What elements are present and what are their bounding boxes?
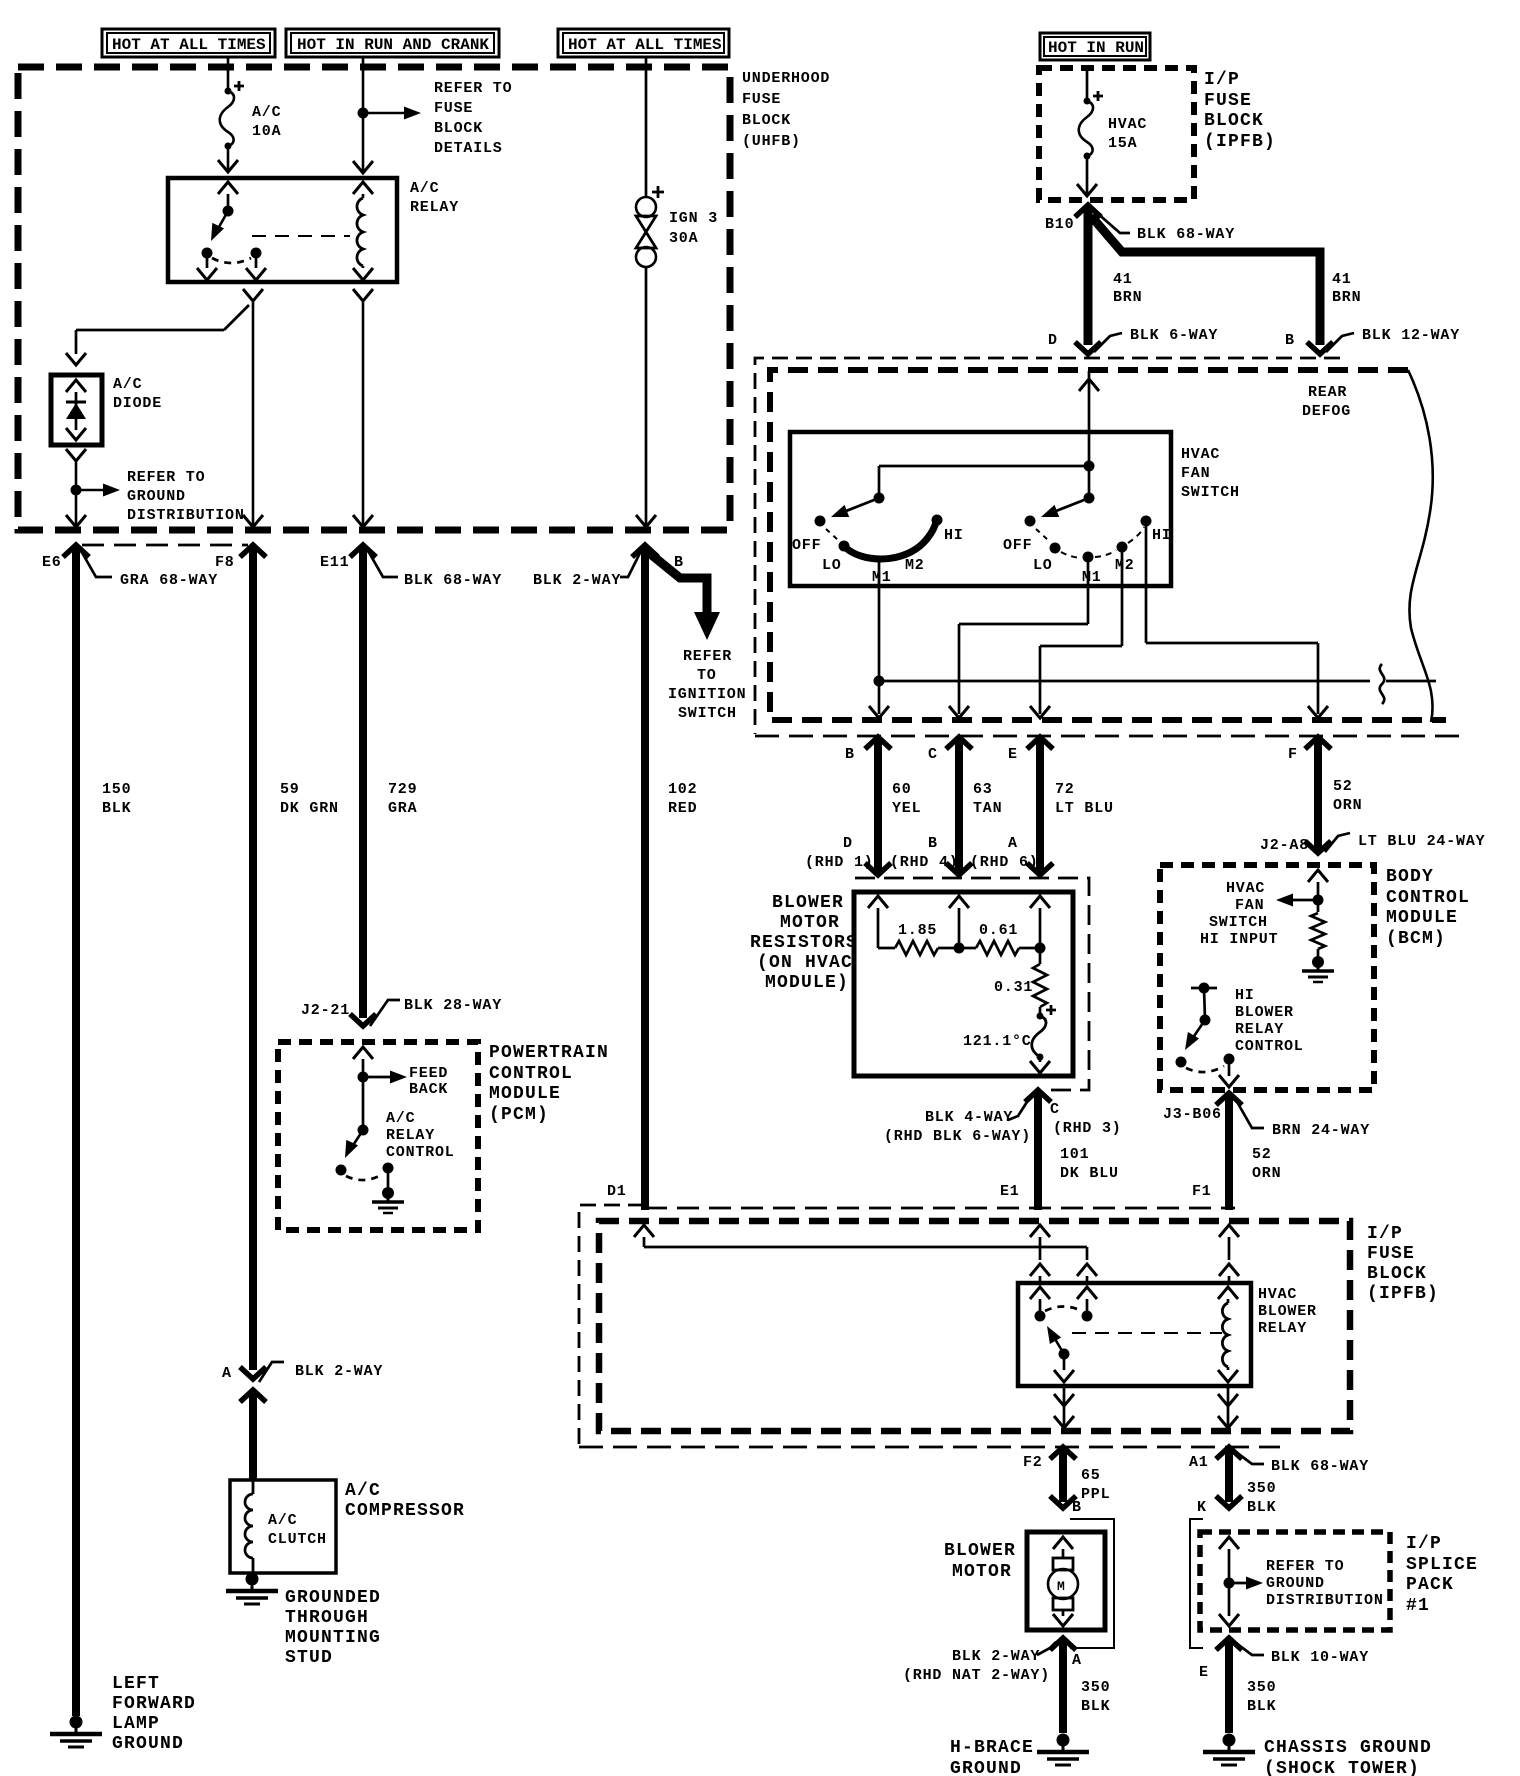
wire: fuse to A/C relay xyxy=(218,146,238,172)
svg-text:FEED: FEED xyxy=(409,1065,448,1082)
svg-text:GROUND: GROUND xyxy=(950,1759,1022,1776)
BCM switch: HI blower relay control xyxy=(1176,983,1240,1088)
module: I/P fuse block (bottom) dashed box xyxy=(599,1221,1350,1431)
svg-text:BODY: BODY xyxy=(1386,867,1434,887)
fan switch feed wiring xyxy=(874,461,1095,504)
wire 101 DK BLU xyxy=(1038,1090,1119,1210)
svg-text:J2-A8: J2-A8 xyxy=(1260,837,1309,854)
I/P fuse block (bottom) title xyxy=(1367,1224,1439,1304)
connector A at compressor xyxy=(222,1362,383,1402)
connector F xyxy=(1288,737,1331,763)
svg-text:F: F xyxy=(1288,746,1298,763)
power feed box: HOT IN RUN AND CRANK xyxy=(286,29,499,57)
connector D xyxy=(1048,327,1218,352)
svg-text:IGN 3: IGN 3 xyxy=(669,210,718,227)
svg-text:RELAY: RELAY xyxy=(386,1127,435,1144)
svg-text:(RHD 3): (RHD 3) xyxy=(1053,1120,1122,1137)
svg-text:(SHOCK TOWER): (SHOCK TOWER) xyxy=(1264,1759,1420,1776)
I/P fuse block outer boundary xyxy=(579,1205,1280,1447)
connector B (blower motor) xyxy=(1070,1499,1114,1648)
BCM title xyxy=(1386,867,1470,949)
node: resistor junction xyxy=(954,943,965,954)
thermal fuse 121.1°C xyxy=(963,1005,1056,1061)
svg-text:M: M xyxy=(1057,1579,1065,1594)
wire 350 BLK (blower motor ground) xyxy=(1063,1638,1110,1733)
svg-text:MODULE: MODULE xyxy=(489,1084,561,1104)
svg-text:CONTROL: CONTROL xyxy=(386,1144,455,1161)
wire 350 BLK (A1 to K) xyxy=(1216,1447,1276,1516)
svg-text:B10: B10 xyxy=(1045,216,1074,233)
resistor 0.31 xyxy=(994,948,1047,1007)
svg-text:HOT AT ALL TIMES: HOT AT ALL TIMES xyxy=(112,36,266,54)
wire: right M1 to output C xyxy=(949,557,1088,718)
svg-text:A/C: A/C xyxy=(345,1481,381,1501)
label: GROUNDED THROUGH MOUNTING STUD xyxy=(285,1588,381,1668)
IPFB entry D1 xyxy=(634,1225,1097,1283)
svg-text:RELAY: RELAY xyxy=(1258,1320,1307,1337)
svg-text:GRA: GRA xyxy=(388,800,417,817)
svg-text:RELAY: RELAY xyxy=(1235,1021,1284,1038)
svg-text:63: 63 xyxy=(973,781,993,798)
wire: HOT AT ALL TIMES to fuse A/C 10A xyxy=(227,57,230,91)
svg-text:MODULE): MODULE) xyxy=(765,973,849,993)
svg-text:A/C: A/C xyxy=(268,1512,297,1529)
connector J2-21 xyxy=(301,997,502,1026)
power feed box: HOT AT ALL TIMES (middle) xyxy=(558,29,729,57)
svg-text:A/C: A/C xyxy=(410,180,439,197)
wire 150 BLK: E6 to left forward lamp ground xyxy=(76,545,131,1716)
connector E6 xyxy=(42,545,89,571)
svg-text:GROUNDED: GROUNDED xyxy=(285,1588,381,1608)
svg-text:HOT IN RUN AND CRANK: HOT IN RUN AND CRANK xyxy=(297,36,489,54)
blower relay internals: switch xyxy=(1030,1287,1222,1382)
node: ground distribution tap xyxy=(71,484,121,497)
svg-text:BLK 28-WAY: BLK 28-WAY xyxy=(404,997,502,1014)
wire: relay output to F8 and diode branch xyxy=(243,289,263,530)
svg-text:101: 101 xyxy=(1060,1146,1089,1163)
connector K (splice pack) xyxy=(1190,1499,1207,1648)
svg-text:BLOWER: BLOWER xyxy=(944,1541,1016,1561)
svg-text:M1: M1 xyxy=(1082,569,1102,586)
wire: right M2 to output E xyxy=(1030,547,1122,718)
svg-text:RELAY: RELAY xyxy=(410,199,459,216)
svg-text:B: B xyxy=(928,835,938,852)
svg-text:E6: E6 xyxy=(42,554,62,571)
svg-text:(RHD 6): (RHD 6) xyxy=(970,854,1039,871)
ground: H-brace ground xyxy=(1037,1734,1089,1766)
svg-text:REFER: REFER xyxy=(683,648,732,665)
svg-text:A1: A1 xyxy=(1189,1454,1209,1471)
svg-text:BLK 4-WAY: BLK 4-WAY xyxy=(925,1109,1013,1126)
connector B xyxy=(632,545,684,571)
wire 729 GRA: E11 to PCM xyxy=(350,545,417,1026)
svg-text:HI: HI xyxy=(944,527,964,544)
svg-text:HI: HI xyxy=(1235,987,1255,1004)
svg-text:PPL: PPL xyxy=(1081,1486,1110,1503)
svg-text:B: B xyxy=(674,554,684,571)
fuse IGN 3 30A xyxy=(636,186,718,267)
wire 52 ORN (BCM to IPFB) xyxy=(1229,1093,1281,1210)
svg-text:0.61: 0.61 xyxy=(979,922,1018,939)
svg-text:HI: HI xyxy=(1152,527,1172,544)
connector J3-B06 xyxy=(1163,1093,1370,1139)
wire 41 BRN: B10 down to D xyxy=(1075,205,1142,354)
UHFB title xyxy=(742,70,830,150)
fan switch left rotary contacts xyxy=(792,515,964,587)
svg-text:I/P: I/P xyxy=(1204,70,1240,90)
svg-text:D: D xyxy=(1048,332,1058,349)
note: REFER TO GROUND DISTRIBUTION xyxy=(127,469,245,524)
svg-text:0.31: 0.31 xyxy=(994,979,1033,996)
svg-text:41: 41 xyxy=(1113,271,1133,288)
wire: E11 relay coil return xyxy=(353,289,373,530)
svg-text:J2-21: J2-21 xyxy=(301,1002,350,1019)
power feed box: HOT AT ALL TIMES (left) xyxy=(102,29,275,57)
svg-text:I/P: I/P xyxy=(1406,1534,1442,1554)
svg-text:HVAC: HVAC xyxy=(1108,116,1147,133)
svg-text:REAR: REAR xyxy=(1308,384,1347,401)
svg-text:DEFOG: DEFOG xyxy=(1302,403,1351,420)
svg-text:BRN: BRN xyxy=(1113,289,1142,306)
wire 65 PPL xyxy=(1050,1447,1110,1508)
wire: A to compressor box xyxy=(249,1390,257,1480)
svg-text:CLUTCH: CLUTCH xyxy=(268,1531,327,1548)
svg-text:(RHD 4): (RHD 4) xyxy=(890,854,959,871)
svg-text:C: C xyxy=(928,746,938,763)
svg-text:HOT IN RUN: HOT IN RUN xyxy=(1048,39,1144,57)
label: H-BRACE GROUND xyxy=(950,1738,1034,1776)
svg-text:BLK 10-WAY: BLK 10-WAY xyxy=(1271,1649,1369,1666)
connector E11 xyxy=(320,545,376,571)
svg-text:(RHD BLK 6-WAY): (RHD BLK 6-WAY) xyxy=(884,1128,1031,1145)
svg-text:C: C xyxy=(1050,1101,1060,1118)
note: REFER TO IGNITION SWITCH xyxy=(668,648,746,722)
svg-text:(IPFB): (IPFB) xyxy=(1367,1284,1439,1304)
svg-text:SWITCH: SWITCH xyxy=(1181,484,1240,501)
svg-text:(ON HVAC: (ON HVAC xyxy=(757,953,853,973)
wire: HOT IN RUN AND CRANK feed xyxy=(353,57,373,173)
wire: IGN3 fuse down to B connector xyxy=(636,267,656,530)
wire 52 ORN (to BCM) xyxy=(1305,737,1362,853)
IPFB entry F1 xyxy=(1219,1225,1239,1283)
svg-text:E11: E11 xyxy=(320,554,349,571)
svg-text:1.85: 1.85 xyxy=(898,922,937,939)
svg-text:BLK: BLK xyxy=(1081,1698,1110,1715)
blower motor symbol xyxy=(1048,1537,1078,1626)
svg-text:121.1°C: 121.1°C xyxy=(963,1033,1032,1050)
connector label BLK 68-WAY (B10) xyxy=(1096,212,1235,243)
svg-text:FUSE: FUSE xyxy=(1204,91,1252,111)
svg-text:OFF: OFF xyxy=(792,537,821,554)
resistor 1.85 xyxy=(878,922,959,955)
svg-text:D: D xyxy=(843,835,853,852)
ground: chassis ground shock tower xyxy=(1203,1734,1255,1766)
PCM label: A/C RELAY CONTROL xyxy=(386,1110,455,1161)
underhood fuse block UHFB dashed box xyxy=(18,67,730,530)
connector F8 xyxy=(215,545,266,571)
wire: relay coil return to A1 xyxy=(1218,1386,1238,1430)
module: A/C compressor box xyxy=(230,1480,465,1573)
svg-text:FORWARD: FORWARD xyxy=(112,1694,196,1714)
svg-text:#1: #1 xyxy=(1406,1596,1430,1616)
wire: diode to ground distribution xyxy=(66,449,86,530)
svg-text:STUD: STUD xyxy=(285,1648,333,1668)
BCM input node xyxy=(1276,870,1328,912)
svg-text:COMPRESSOR: COMPRESSOR xyxy=(345,1501,465,1521)
relay K2: HVAC blower relay box xyxy=(1018,1283,1317,1386)
svg-text:A/C: A/C xyxy=(386,1110,415,1127)
connector B (12-way) xyxy=(1285,327,1460,352)
resistor 0.61 xyxy=(959,922,1040,955)
svg-text:HVAC: HVAC xyxy=(1181,446,1220,463)
svg-text:FUSE: FUSE xyxy=(1367,1244,1415,1264)
svg-text:POWERTRAIN: POWERTRAIN xyxy=(489,1043,609,1063)
svg-text:SWITCH: SWITCH xyxy=(1209,914,1268,931)
svg-text:A: A xyxy=(1072,1652,1082,1669)
splice pack internals xyxy=(1219,1537,1263,1626)
connector B10 xyxy=(1045,205,1101,233)
svg-text:LT BLU: LT BLU xyxy=(1055,800,1114,817)
svg-text:F2: F2 xyxy=(1023,1454,1043,1471)
connector C (RHD 3) xyxy=(884,1090,1122,1145)
svg-text:I/P: I/P xyxy=(1367,1224,1403,1244)
svg-text:A: A xyxy=(222,1365,232,1382)
svg-text:BLOCK: BLOCK xyxy=(434,120,483,137)
svg-text:(PCM): (PCM) xyxy=(489,1105,549,1125)
svg-text:(RHD 1): (RHD 1) xyxy=(805,854,874,871)
svg-text:52: 52 xyxy=(1252,1146,1272,1163)
svg-text:30A: 30A xyxy=(669,230,698,247)
svg-text:H-BRACE: H-BRACE xyxy=(950,1738,1034,1758)
svg-text:RED: RED xyxy=(668,800,697,817)
module BCM: dashed box xyxy=(1160,865,1374,1090)
fan switch left wiper arm xyxy=(829,498,879,523)
svg-text:59: 59 xyxy=(280,781,300,798)
svg-text:150: 150 xyxy=(102,781,131,798)
wire: right HI to output F xyxy=(1146,521,1328,718)
svg-text:(BCM): (BCM) xyxy=(1386,929,1446,949)
wire 59 DK GRN: F8 to A/C compressor xyxy=(240,545,339,1379)
svg-text:65: 65 xyxy=(1081,1467,1101,1484)
connector label GRA 68-WAY xyxy=(80,549,218,589)
svg-text:CHASSIS GROUND: CHASSIS GROUND xyxy=(1264,1738,1432,1758)
fan switch right rotary contacts xyxy=(1003,516,1172,587)
wire 60 YEL xyxy=(865,737,921,875)
BCM label: HI BLOWER RELAY CONTROL xyxy=(1235,987,1304,1055)
svg-text:HOT AT ALL TIMES: HOT AT ALL TIMES xyxy=(568,36,722,54)
svg-text:A/C: A/C xyxy=(252,104,281,121)
svg-text:LAMP: LAMP xyxy=(112,1714,160,1734)
PCM title xyxy=(489,1043,609,1125)
I/P splice pack title xyxy=(1406,1534,1478,1616)
PCM internals: feedback node xyxy=(353,1047,448,1130)
wire: fuse to B10 xyxy=(1077,156,1097,196)
fan switch right wiper arm xyxy=(1039,498,1089,523)
svg-text:41: 41 xyxy=(1332,271,1352,288)
connector A (blower motor bottom) xyxy=(903,1638,1082,1684)
svg-text:MODULE: MODULE xyxy=(1386,908,1458,928)
note: REFER TO GROUND DISTRIBUTION (splice pack) xyxy=(1266,1558,1384,1609)
svg-text:YEL: YEL xyxy=(892,800,921,817)
PCM internals: A/C relay control switch xyxy=(336,1125,405,1214)
svg-text:IGNITION: IGNITION xyxy=(668,686,746,703)
svg-text:GRA 68-WAY: GRA 68-WAY xyxy=(120,572,218,589)
svg-text:THROUGH: THROUGH xyxy=(285,1608,369,1628)
connector J2-A8 xyxy=(1260,833,1485,854)
node: rear defog tap xyxy=(874,664,1437,704)
svg-text:GROUND: GROUND xyxy=(1266,1575,1325,1592)
wire 63 TAN xyxy=(946,737,1002,875)
svg-text:REFER TO: REFER TO xyxy=(1266,1558,1344,1575)
connector labels D1 E1 F1 xyxy=(607,1183,1212,1200)
svg-text:PACK: PACK xyxy=(1406,1575,1454,1595)
svg-text:BLOWER: BLOWER xyxy=(772,893,844,913)
svg-text:BLK 12-WAY: BLK 12-WAY xyxy=(1362,327,1460,344)
node: fuse block details tap xyxy=(358,107,422,120)
svg-text:CONTROL: CONTROL xyxy=(489,1064,573,1084)
svg-text:72: 72 xyxy=(1055,781,1075,798)
wire 72 LT BLU xyxy=(1027,737,1114,875)
wire: left M1 to output B xyxy=(869,559,889,718)
svg-text:BLK: BLK xyxy=(102,800,131,817)
svg-text:729: 729 xyxy=(388,781,417,798)
note: REFER TO FUSE BLOCK DETAILS xyxy=(434,80,512,157)
module: I/P fuse block (top) dashed box xyxy=(1039,68,1194,200)
svg-text:BLK 2-WAY: BLK 2-WAY xyxy=(295,1363,383,1380)
rear defog torn edge xyxy=(1408,370,1433,722)
BCM pull-down resistor xyxy=(1311,913,1325,958)
svg-text:BLOCK: BLOCK xyxy=(742,112,791,129)
svg-text:(UHFB): (UHFB) xyxy=(742,133,801,150)
svg-text:A: A xyxy=(1008,835,1018,852)
label: LEFT FORWARD LAMP GROUND xyxy=(112,1674,196,1754)
connector C xyxy=(928,737,972,763)
svg-text:D1: D1 xyxy=(607,1183,627,1200)
svg-text:SPLICE: SPLICE xyxy=(1406,1555,1478,1575)
svg-text:BRN: BRN xyxy=(1332,289,1361,306)
svg-text:FAN: FAN xyxy=(1181,465,1210,482)
svg-text:BLK 68-WAY: BLK 68-WAY xyxy=(1271,1458,1369,1475)
connector F2 xyxy=(1023,1447,1076,1471)
module: blower motor resistors box xyxy=(854,892,1073,1076)
label: CHASSIS GROUND (SHOCK TOWER) xyxy=(1264,1738,1432,1776)
svg-text:FUSE: FUSE xyxy=(434,100,473,117)
connector A1 xyxy=(1189,1447,1369,1475)
svg-text:GROUND: GROUND xyxy=(112,1734,184,1754)
svg-text:SWITCH: SWITCH xyxy=(678,705,737,722)
svg-text:DISTRIBUTION: DISTRIBUTION xyxy=(127,507,245,524)
connector label BLK 68-WAY xyxy=(367,549,502,589)
svg-text:E1: E1 xyxy=(1000,1183,1020,1200)
connector E xyxy=(1008,737,1053,763)
svg-text:DK GRN: DK GRN xyxy=(280,800,339,817)
wire: HOT AT ALL TIMES to IGN3 fuse xyxy=(645,57,648,197)
svg-text:60: 60 xyxy=(892,781,912,798)
BCM label: HVAC FAN SWITCH HI INPUT xyxy=(1200,880,1278,948)
connector dashed link B-C-E resistor module xyxy=(855,878,1089,1090)
svg-text:BLOWER: BLOWER xyxy=(1235,1004,1294,1021)
IPFB entry E1 xyxy=(1030,1225,1050,1283)
svg-text:M2: M2 xyxy=(905,557,925,574)
A/C clutch coil xyxy=(245,1480,327,1573)
connector B (fan switch output) xyxy=(845,737,891,763)
svg-text:(IPFB): (IPFB) xyxy=(1204,132,1276,152)
svg-text:FAN: FAN xyxy=(1235,897,1264,914)
svg-text:GROUND: GROUND xyxy=(127,488,186,505)
svg-text:BLOWER: BLOWER xyxy=(1258,1303,1317,1320)
fuse A/C 10A xyxy=(220,81,282,150)
svg-text:B: B xyxy=(1285,332,1295,349)
svg-text:52: 52 xyxy=(1333,778,1353,795)
wire: diode branch diagonal xyxy=(66,305,249,365)
module PCM: dashed box xyxy=(278,1042,478,1230)
svg-text:BACK: BACK xyxy=(409,1081,448,1098)
svg-text:LO: LO xyxy=(1033,557,1053,574)
ground: BCM internal xyxy=(1302,956,1334,982)
svg-text:DETAILS: DETAILS xyxy=(434,140,503,157)
connector E (splice pack bottom) xyxy=(1199,1638,1369,1681)
A/C relay internals: coil xyxy=(252,182,373,280)
svg-text:10A: 10A xyxy=(252,123,281,140)
connector dashed link D1-E1-F1 xyxy=(645,1207,1235,1210)
svg-text:E: E xyxy=(1199,1664,1209,1681)
svg-text:BLK: BLK xyxy=(1247,1698,1276,1715)
svg-text:BLOCK: BLOCK xyxy=(1204,111,1264,131)
label: REAR DEFOG xyxy=(1302,384,1351,420)
svg-text:B: B xyxy=(1072,1499,1082,1516)
svg-text:REFER TO: REFER TO xyxy=(127,469,205,486)
svg-text:15A: 15A xyxy=(1108,135,1137,152)
svg-text:TAN: TAN xyxy=(973,800,1002,817)
svg-text:(RHD NAT 2-WAY): (RHD NAT 2-WAY) xyxy=(903,1667,1050,1684)
svg-text:ORN: ORN xyxy=(1252,1165,1281,1182)
wire: relay switch output to F2 xyxy=(1054,1386,1074,1430)
svg-text:DK BLU: DK BLU xyxy=(1060,1165,1119,1182)
blower resistor pins D B A xyxy=(805,835,1039,871)
svg-text:DIODE: DIODE xyxy=(113,395,162,412)
svg-text:HI INPUT: HI INPUT xyxy=(1200,931,1278,948)
svg-text:RESISTORS: RESISTORS xyxy=(750,933,858,953)
svg-text:MOTOR: MOTOR xyxy=(952,1562,1012,1582)
svg-text:M2: M2 xyxy=(1115,557,1135,574)
connector dashed link E6-F8 xyxy=(82,544,248,547)
power feed box: HOT IN RUN (right) xyxy=(1040,33,1150,60)
svg-text:BLK 68-WAY: BLK 68-WAY xyxy=(1137,226,1235,243)
svg-text:DISTRIBUTION: DISTRIBUTION xyxy=(1266,1592,1384,1609)
connector label BLK 2-WAY xyxy=(533,551,641,589)
blower motor resistors title xyxy=(750,893,858,993)
svg-text:102: 102 xyxy=(668,781,697,798)
svg-text:ORN: ORN xyxy=(1333,797,1362,814)
motor M1: blower motor box xyxy=(944,1532,1105,1630)
svg-text:TO: TO xyxy=(697,667,717,684)
node: resistor junction 2 xyxy=(1035,943,1046,954)
svg-text:FUSE: FUSE xyxy=(742,91,781,108)
wire: D into fan switch xyxy=(1079,371,1099,466)
svg-text:MOTOR: MOTOR xyxy=(780,913,840,933)
svg-text:K: K xyxy=(1197,1499,1207,1516)
diode D1: A/C diode box xyxy=(51,375,162,445)
svg-text:B: B xyxy=(845,746,855,763)
I/P fuse block title xyxy=(1204,70,1276,152)
module: I/P splice pack dashed box xyxy=(1200,1532,1390,1630)
ground: compressor mounting stud xyxy=(226,1573,278,1605)
svg-text:MOUNTING: MOUNTING xyxy=(285,1628,381,1648)
rear defog dashed enclosure xyxy=(770,370,1446,720)
svg-text:LO: LO xyxy=(822,557,842,574)
resistor module output xyxy=(1030,1057,1050,1073)
svg-text:OFF: OFF xyxy=(1003,537,1032,554)
